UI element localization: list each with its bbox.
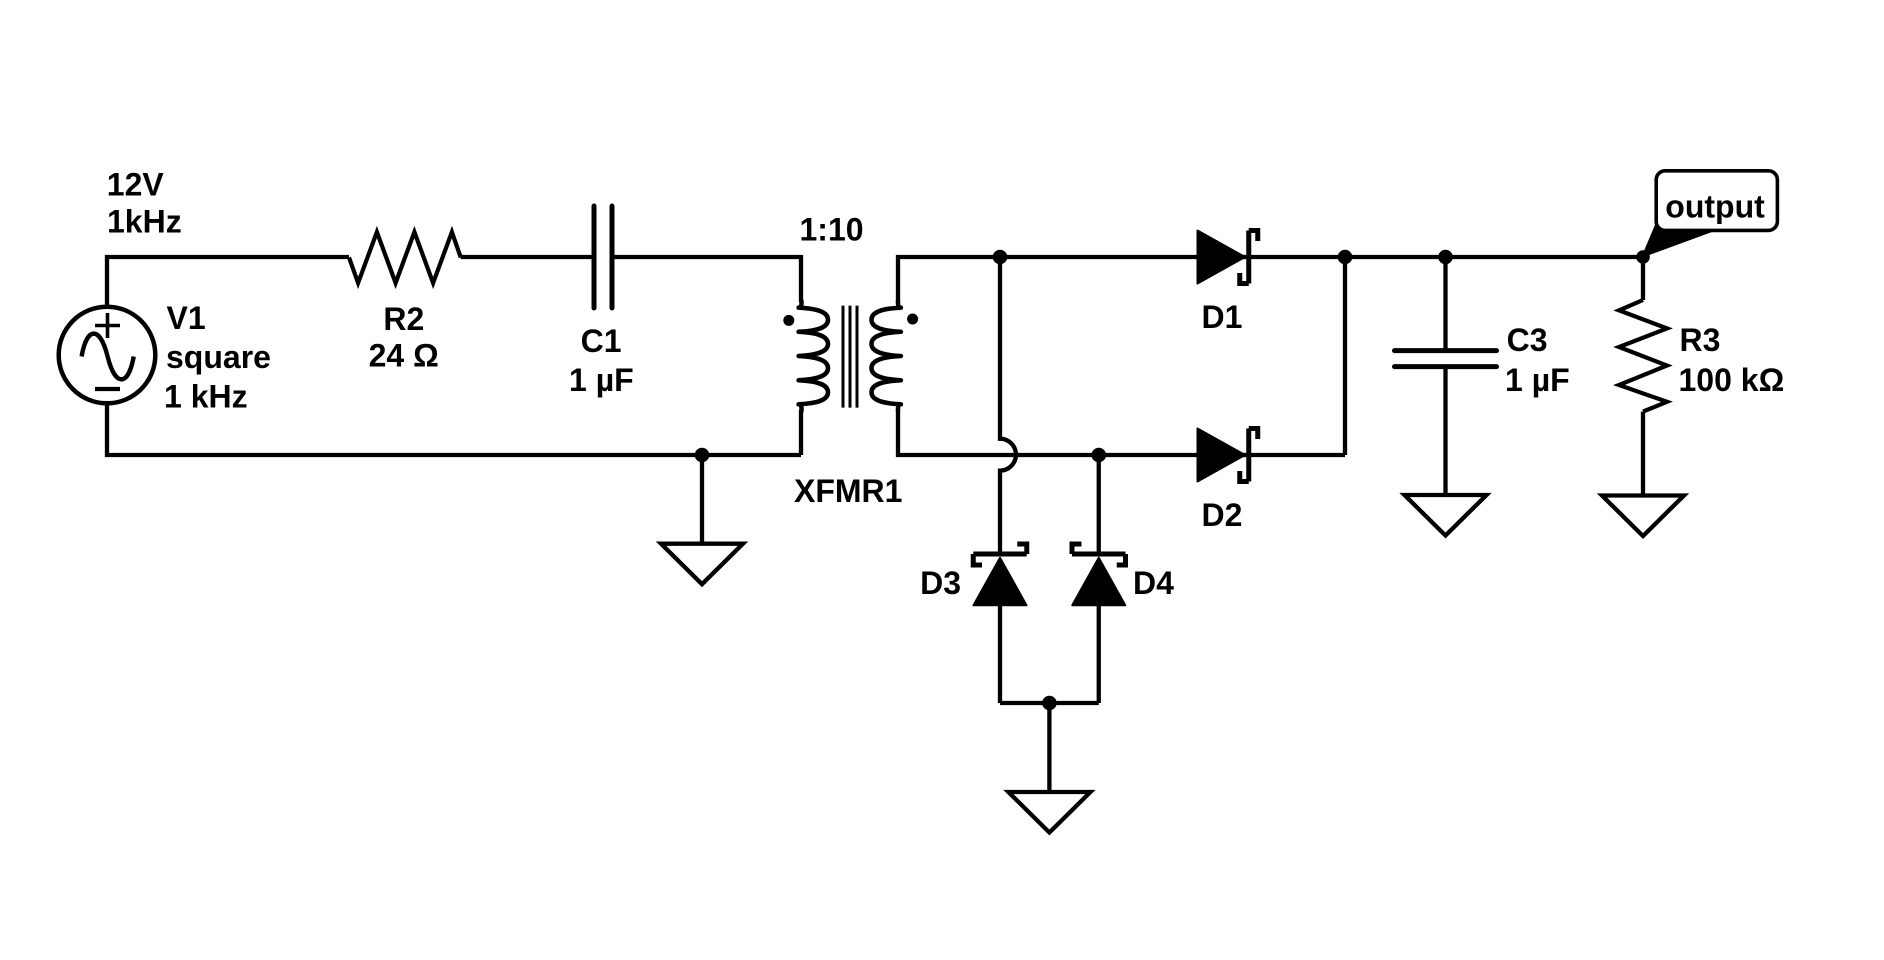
- diode D3: [973, 544, 1027, 605]
- wire D2 up to top rail: [1343, 257, 1347, 455]
- svg-text:24 Ω: 24 Ω: [369, 338, 439, 374]
- ground: [1405, 495, 1487, 536]
- wire R3 top: [1641, 257, 1645, 300]
- svg-text:12V: 12V: [107, 167, 165, 203]
- svg-text:1 kHz: 1 kHz: [164, 379, 248, 415]
- wire R2 to C1: [461, 255, 594, 259]
- svg-text:C1: C1: [581, 323, 622, 359]
- svg-text:output: output: [1665, 189, 1765, 225]
- svg-text:D1: D1: [1202, 299, 1243, 335]
- wire transformer secondary top rail: [898, 257, 1643, 302]
- wire C3 top: [1443, 257, 1447, 351]
- capacitor C1: [594, 206, 612, 308]
- resistor R2: [349, 232, 461, 283]
- wire secondary bottom rail: [898, 410, 1345, 455]
- diode D4: [1072, 544, 1126, 605]
- bottom rail V1 to transformer: [107, 403, 801, 455]
- wire D3 anode down: [998, 605, 1002, 703]
- node lower rail D4 branch: [1091, 448, 1106, 463]
- wire D4 anode down: [1097, 605, 1101, 703]
- V1 value label 12V 1kHz: [107, 167, 182, 240]
- diode D1: [1198, 231, 1258, 284]
- ground: [661, 544, 743, 585]
- svg-text:1:10: 1:10: [800, 212, 864, 248]
- V1 label: [164, 300, 271, 415]
- svg-text:D2: D2: [1202, 497, 1243, 533]
- node secondary top branch: [993, 250, 1008, 265]
- svg-text:1 µF: 1 µF: [569, 362, 634, 398]
- primary phase dot: [783, 315, 794, 326]
- node C3 top: [1438, 250, 1453, 265]
- resistor R3: [1619, 300, 1667, 412]
- output callout pointer: [1641, 220, 1712, 258]
- wire joining D3 D4 bottoms: [1000, 701, 1099, 705]
- svg-text:V1: V1: [167, 300, 206, 336]
- wire branch to D4: [1097, 455, 1101, 554]
- diode D2: [1198, 429, 1258, 482]
- wire to ground: [700, 455, 704, 544]
- transformer XFMR1 primary coil: [799, 301, 828, 411]
- node D1/D2 join: [1338, 250, 1353, 265]
- svg-text:1 µF: 1 µF: [1505, 362, 1570, 398]
- svg-text:R2: R2: [383, 301, 424, 337]
- wire branch to D3 with hop over lower rail: [1000, 257, 1016, 554]
- svg-text:100 kΩ: 100 kΩ: [1679, 362, 1785, 398]
- wire R3 bottom: [1641, 412, 1645, 496]
- secondary phase dot: [907, 314, 918, 325]
- wire to ground: [1047, 703, 1051, 792]
- voltage source V1: [59, 307, 156, 404]
- ground: [1008, 792, 1090, 833]
- svg-text:square: square: [166, 339, 271, 375]
- wire transformer primary bottom: [799, 410, 803, 455]
- svg-text:D4: D4: [1133, 565, 1174, 601]
- wire V1 top to R2: [107, 257, 349, 307]
- svg-text:C3: C3: [1507, 322, 1548, 358]
- C3 label: [1505, 322, 1570, 398]
- wire C1 to transformer primary: [612, 257, 801, 302]
- R3 label: [1679, 322, 1785, 398]
- capacitor C3: [1395, 351, 1497, 367]
- node output: [1636, 250, 1650, 264]
- output callout box: [1656, 171, 1777, 231]
- svg-text:XFMR1: XFMR1: [794, 473, 902, 509]
- svg-text:1kHz: 1kHz: [107, 204, 182, 240]
- node D3/D4 join: [1042, 696, 1057, 711]
- transformer secondary coil: [872, 301, 901, 411]
- ground: [1602, 496, 1684, 537]
- R2 label: [369, 301, 439, 374]
- svg-text:R3: R3: [1680, 322, 1721, 358]
- node at ground stub: [695, 448, 710, 463]
- transformer core: [843, 306, 857, 408]
- wire C3 bottom: [1443, 367, 1447, 495]
- svg-text:D3: D3: [920, 565, 961, 601]
- C1 label: [569, 323, 634, 398]
